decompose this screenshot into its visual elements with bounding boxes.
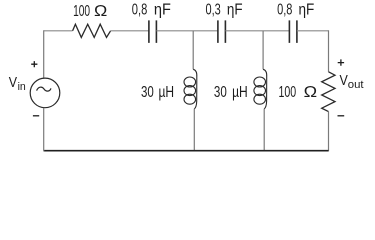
wire L2 bottom [263,109,265,152]
capacitor C1 value label 0,8 nF [132,1,171,18]
capacitor C3 value label 0,8 nF [277,1,314,18]
inductor L2 value label 30 uH [214,84,248,101]
wire bottom rail [44,150,329,152]
wire between C2 and C3 [225,30,289,32]
node junction L2 top [262,31,264,70]
voltage source Vin circle [30,78,60,108]
resistor R2 zigzag [322,72,335,112]
wire between R1 and C1 [111,30,149,32]
Vout minus sign [338,115,345,117]
svg-text:0,3: 0,3 [206,1,221,18]
svg-text:30: 30 [214,84,227,101]
svg-text:100: 100 [279,84,297,101]
Vin plus sign [31,61,37,67]
svg-text:ηF: ηF [227,1,243,18]
svg-text:ηF: ηF [154,1,171,18]
svg-text:V: V [340,73,349,89]
inductor L2 coil [254,69,267,109]
svg-text:0,8: 0,8 [132,1,148,18]
wire L1 bottom [193,109,195,152]
resistor R1 zigzag [73,24,111,37]
Vin minus sign [33,115,39,117]
capacitor C2 value label 0,3 nF [206,1,243,18]
capacitor C3 plates [289,20,297,43]
inductor L1 coil [184,69,197,109]
wire top rail right segment [297,30,329,32]
inductor L1 value label 30 uH [141,84,174,101]
wire top rail left segment [44,30,73,32]
Vout label [340,73,364,91]
Vout plus sign [338,59,344,65]
svg-text:µH: µH [232,84,248,101]
Vin label [9,75,26,93]
wire left rail bottom [43,108,45,152]
capacitor C2 plates [218,20,226,43]
resistor R2 value label 100 Ohm [279,84,318,101]
svg-text:out: out [348,79,364,91]
wire between C1 and C2 [156,30,218,32]
capacitor C1 plates [149,20,157,43]
svg-text:100: 100 [73,3,90,20]
svg-text:Ω: Ω [94,3,107,20]
svg-text:µH: µH [159,84,175,101]
svg-text:ηF: ηF [299,1,315,18]
voltage source sine symbol [37,87,51,91]
resistor R1 value label 100 Ohm [73,3,107,20]
svg-text:Ω: Ω [304,84,318,101]
wire right rail bottom [328,112,330,152]
svg-text:V: V [9,75,18,91]
node junction L1 top [192,31,194,70]
svg-text:30: 30 [141,84,154,101]
svg-text:in: in [18,81,26,93]
wire right rail top [328,30,330,72]
wire left rail top [43,30,45,78]
svg-text:0,8: 0,8 [277,1,292,18]
